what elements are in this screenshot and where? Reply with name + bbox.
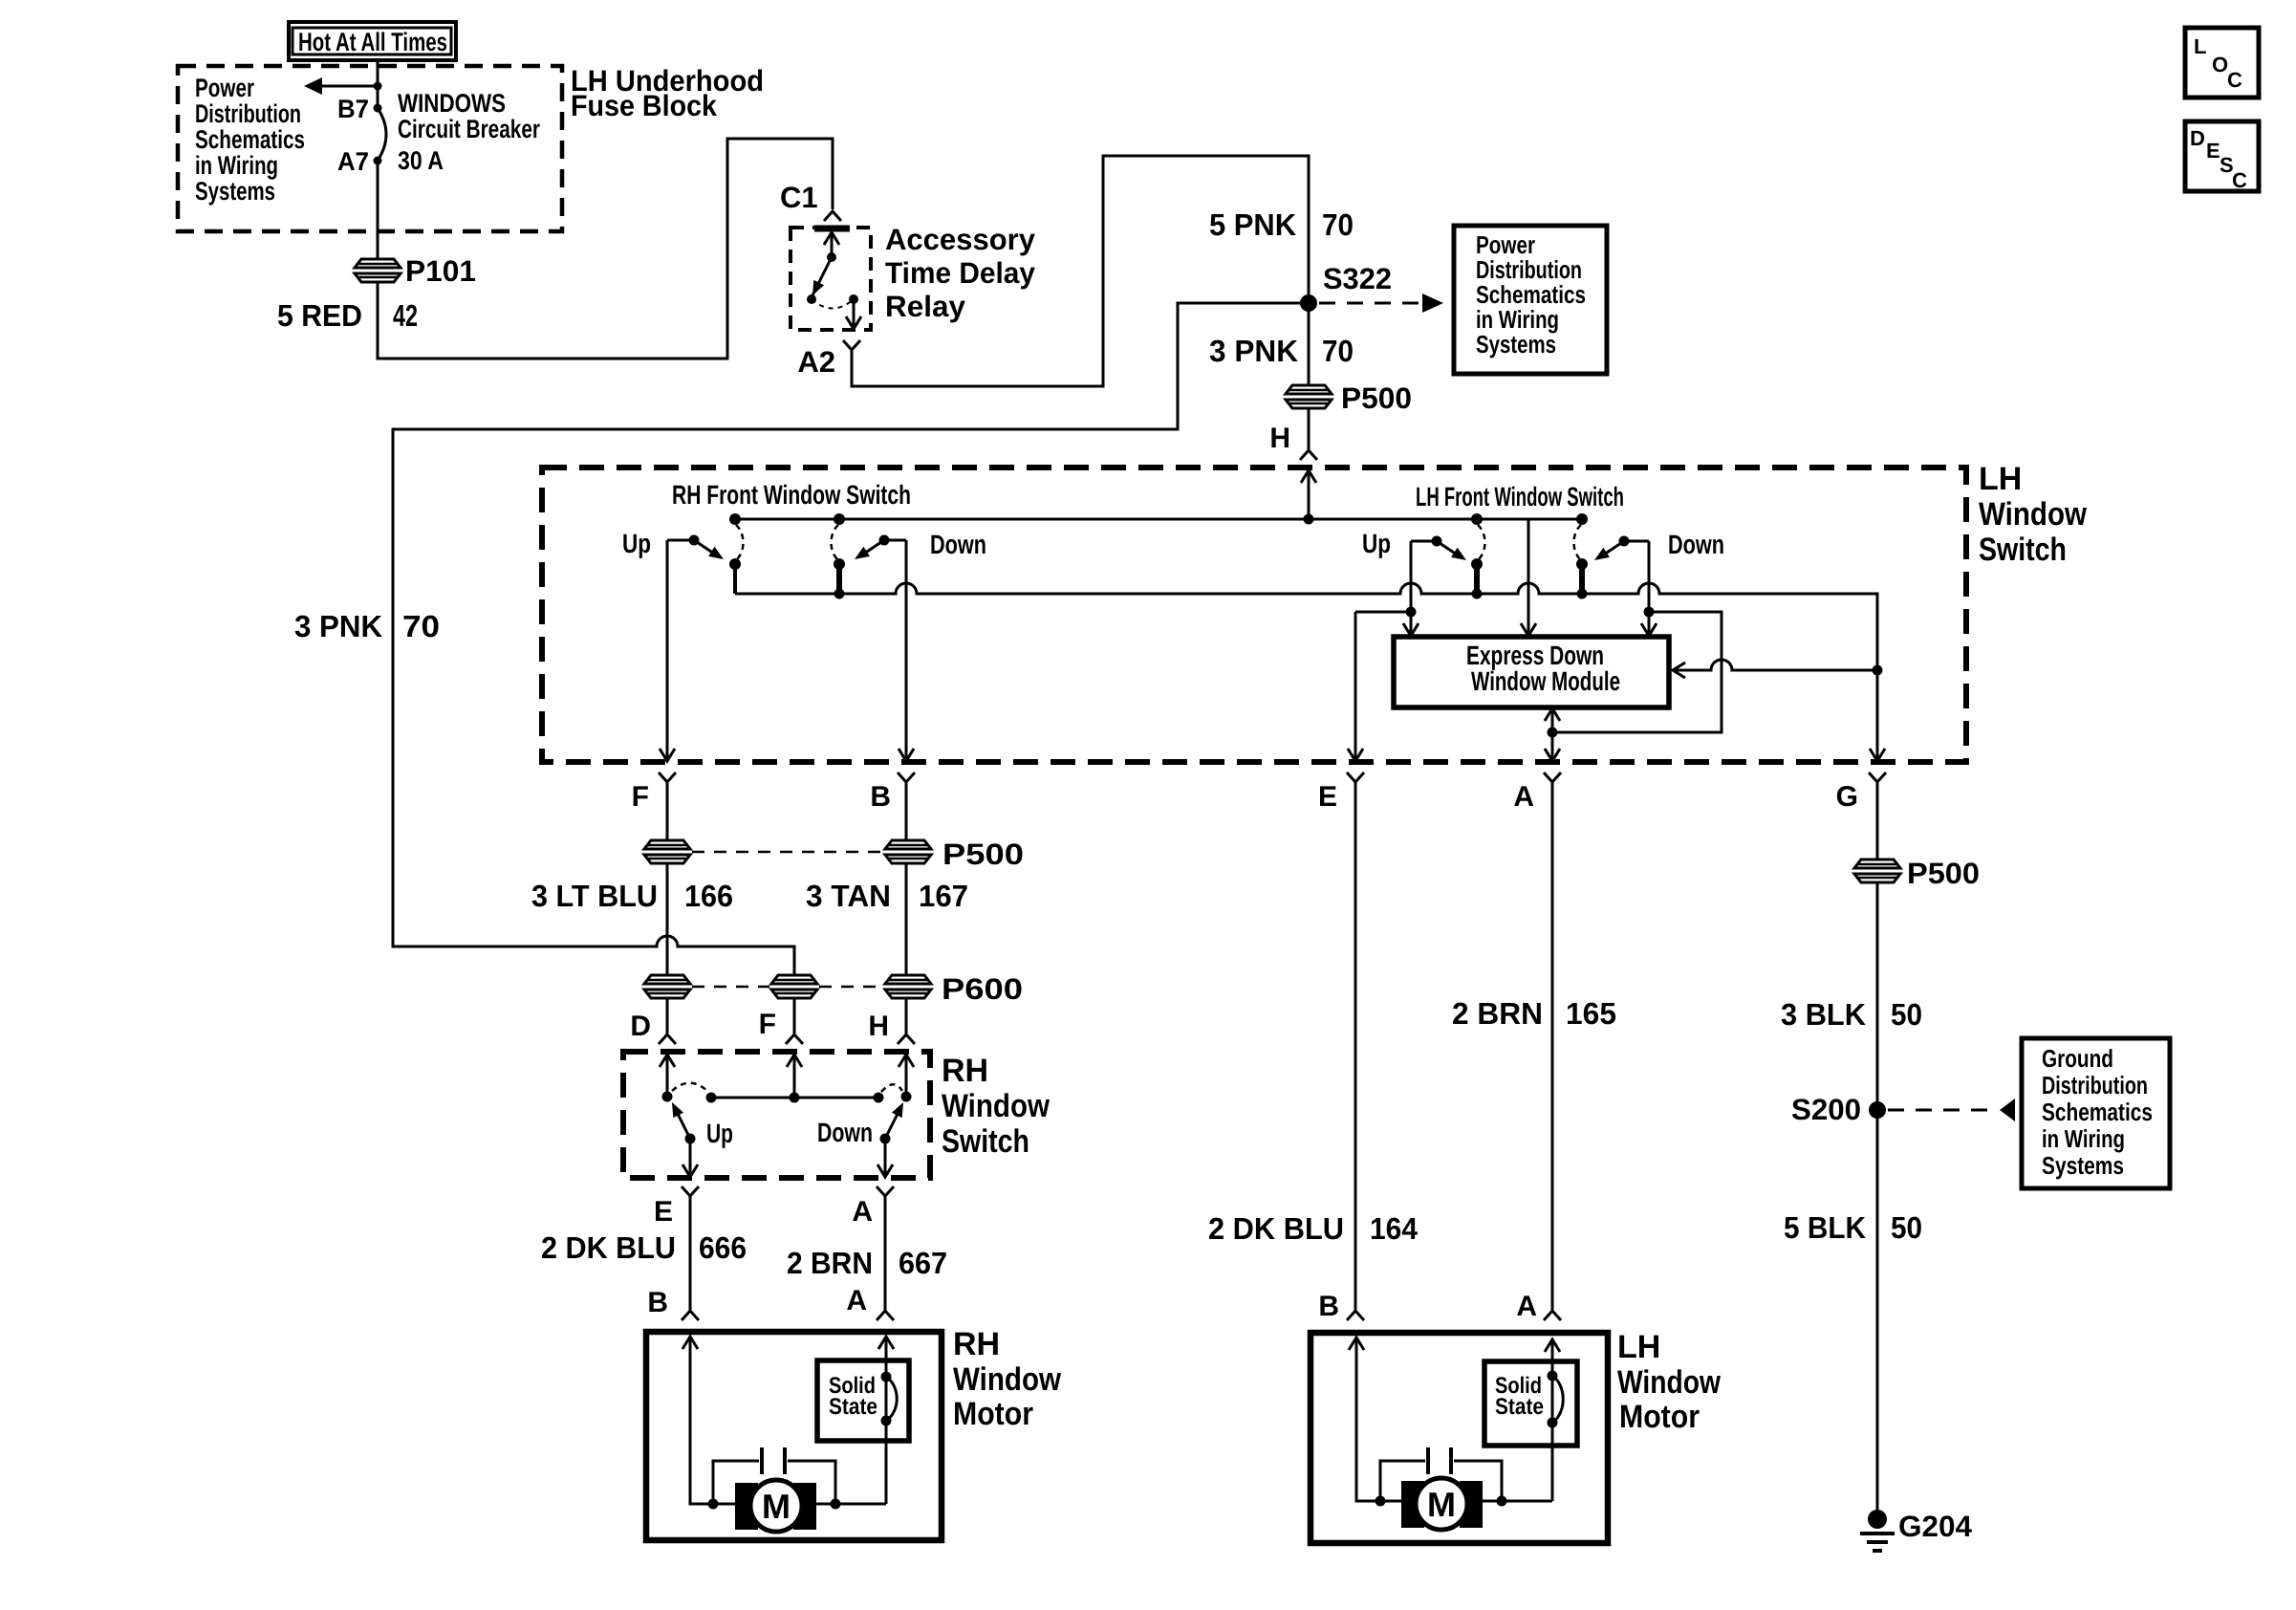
svg-text:Motor: Motor xyxy=(953,1396,1033,1432)
svg-text:Hot At All Times: Hot At All Times xyxy=(298,28,447,56)
svg-text:70: 70 xyxy=(1322,334,1354,368)
svg-text:P500: P500 xyxy=(942,838,1024,871)
pin C1 xyxy=(824,211,841,221)
wire P600 to pin D xyxy=(666,998,669,1033)
wire module bottom feedback xyxy=(1551,710,1554,732)
pin B (LH motor) xyxy=(1347,1311,1364,1320)
wire F P500 to P600 xyxy=(666,863,669,975)
svg-text:Window: Window xyxy=(1979,496,2087,533)
wire E to RH motor xyxy=(689,1195,692,1310)
svg-text:Distribution: Distribution xyxy=(195,99,301,128)
connector P500 (H) xyxy=(1286,385,1332,408)
svg-text:G: G xyxy=(1836,781,1858,813)
svg-text:LH Front Window Switch: LH Front Window Switch xyxy=(1416,482,1624,511)
wire G to P500 xyxy=(1876,782,1879,859)
svg-text:Accessory: Accessory xyxy=(885,223,1036,256)
svg-text:3 TAN: 3 TAN xyxy=(806,879,891,913)
wire A output xyxy=(1551,732,1554,760)
box Express Down Window Module xyxy=(1394,637,1669,707)
svg-text:LH: LH xyxy=(1617,1329,1660,1365)
svg-text:Up: Up xyxy=(706,1119,733,1148)
svg-text:Ground: Ground xyxy=(2042,1044,2113,1073)
wire P600 to pin H xyxy=(905,998,908,1033)
capacitor (LH motor) xyxy=(1380,1461,1425,1501)
wire B to P500 xyxy=(905,782,908,840)
svg-text:G204: G204 xyxy=(1898,1510,1973,1543)
pin F xyxy=(659,772,676,782)
box Power Distribution Schematics in Wiring Systems xyxy=(1454,226,1607,374)
svg-text:50: 50 xyxy=(1891,1210,1922,1245)
box DESC xyxy=(2185,121,2259,192)
svg-text:70: 70 xyxy=(1322,207,1354,242)
svg-text:Time Delay: Time Delay xyxy=(885,256,1036,290)
svg-text:3 PNK: 3 PNK xyxy=(294,609,382,643)
wire switch feed bus xyxy=(735,518,1582,521)
svg-text:5 RED: 5 RED xyxy=(277,298,362,333)
node arrow junction xyxy=(374,82,382,91)
svg-text:L: L xyxy=(2194,34,2206,58)
svg-text:164: 164 xyxy=(1370,1211,1418,1246)
wire RH up output to F xyxy=(666,540,669,760)
svg-text:A: A xyxy=(852,1196,873,1228)
motor RH internals xyxy=(682,1337,909,1532)
svg-text:Window: Window xyxy=(1617,1364,1721,1401)
svg-text:M: M xyxy=(1427,1485,1456,1524)
pin G xyxy=(1869,772,1886,782)
arrow S200 to ground distribution xyxy=(1888,1109,1998,1112)
svg-text:State: State xyxy=(1495,1394,1544,1420)
svg-text:H: H xyxy=(868,1011,889,1042)
connector P500 (F) xyxy=(644,840,690,863)
svg-text:Switch: Switch xyxy=(942,1123,1029,1160)
svg-text:Window: Window xyxy=(942,1088,1050,1124)
switch RH front Up contact xyxy=(667,513,744,594)
arrow S322 to power distribution xyxy=(1319,302,1421,305)
svg-text:P500: P500 xyxy=(1341,381,1412,415)
pin H (RH switch) xyxy=(898,1034,915,1044)
capacitor (RH motor) xyxy=(713,1461,759,1504)
svg-text:A: A xyxy=(1513,781,1534,813)
svg-text:166: 166 xyxy=(684,879,733,913)
svg-text:O: O xyxy=(2212,53,2228,76)
node S200 xyxy=(1869,1101,1886,1119)
svg-text:E: E xyxy=(2206,139,2220,163)
svg-text:C: C xyxy=(2227,68,2242,92)
relay Accessory Time Delay Relay xyxy=(791,228,871,330)
svg-text:P500: P500 xyxy=(1907,857,1980,890)
pin E (RH switch) xyxy=(682,1186,699,1196)
svg-text:Relay: Relay xyxy=(885,290,966,323)
wire A(LH) to LH motor xyxy=(1551,782,1554,1310)
svg-text:M: M xyxy=(762,1487,791,1526)
pin B xyxy=(898,772,915,782)
wire A2 to S322 xyxy=(852,156,1309,386)
box RH Window Motor xyxy=(646,1332,942,1540)
wire P101 to relay pin C1 xyxy=(378,139,833,359)
svg-text:Systems: Systems xyxy=(1476,330,1556,359)
dashed box LH Underhood Fuse Block xyxy=(178,66,562,231)
wire P500 to pin H xyxy=(1308,408,1310,449)
svg-text:3 BLK: 3 BLK xyxy=(1781,997,1866,1032)
svg-text:Systems: Systems xyxy=(2042,1151,2124,1180)
svg-text:C: C xyxy=(2232,168,2247,192)
pin F (RH switch) xyxy=(786,1034,803,1044)
wire A7 to P101 xyxy=(377,161,379,259)
pin H xyxy=(1300,450,1317,460)
svg-text:Schematics: Schematics xyxy=(2042,1098,2153,1126)
pin A (RH motor) xyxy=(877,1311,894,1320)
wire LH up branch to E and module xyxy=(1410,541,1413,612)
wire P600 to pin F xyxy=(793,998,796,1033)
svg-text:42: 42 xyxy=(393,298,418,333)
svg-text:70: 70 xyxy=(402,609,440,643)
svg-text:E: E xyxy=(1318,781,1337,813)
motor LH internals xyxy=(1349,1338,1577,1530)
pin A2 xyxy=(843,340,860,350)
svg-text:F: F xyxy=(632,781,649,813)
svg-text:Down: Down xyxy=(930,530,986,559)
pin A (LH motor) xyxy=(1544,1311,1561,1320)
svg-text:LH: LH xyxy=(1979,461,2022,497)
svg-text:5 PNK: 5 PNK xyxy=(1209,207,1296,242)
connector P500 (G) xyxy=(1854,859,1900,882)
svg-text:5 BLK: 5 BLK xyxy=(1784,1210,1866,1245)
svg-text:A: A xyxy=(1516,1291,1537,1322)
svg-text:F: F xyxy=(759,1009,776,1040)
svg-text:A7: A7 xyxy=(337,147,369,176)
svg-text:A: A xyxy=(846,1285,867,1316)
node S322 xyxy=(1300,294,1317,312)
switch LH front Up contact xyxy=(1411,513,1485,599)
connector P101 xyxy=(355,259,401,282)
svg-text:B: B xyxy=(870,781,891,813)
switch RH window internals xyxy=(660,1054,914,1177)
node A7 xyxy=(374,157,382,165)
wire A to RH motor xyxy=(884,1195,887,1310)
svg-text:WINDOWS: WINDOWS xyxy=(398,89,506,118)
svg-text:B7: B7 xyxy=(337,95,369,123)
wire module right-side input xyxy=(1675,660,1877,670)
switch LH front Down contact xyxy=(1574,513,1650,599)
pin D xyxy=(659,1034,676,1044)
motor M (RH) xyxy=(735,1483,758,1530)
svg-text:in Wiring: in Wiring xyxy=(2042,1124,2125,1153)
wire S322 to P500 xyxy=(1308,303,1310,385)
svg-text:Window Module: Window Module xyxy=(1471,666,1620,696)
svg-text:Motor: Motor xyxy=(1619,1399,1700,1435)
svg-text:D: D xyxy=(630,1011,651,1042)
connector P500 (B) xyxy=(885,840,931,863)
svg-text:in Wiring: in Wiring xyxy=(195,151,278,180)
svg-text:S200: S200 xyxy=(1791,1093,1861,1126)
svg-text:P101: P101 xyxy=(405,254,476,288)
pin B (RH motor) xyxy=(682,1311,699,1320)
svg-text:State: State xyxy=(829,1394,877,1420)
svg-text:S322: S322 xyxy=(1323,262,1392,295)
svg-text:RH Front Window Switch: RH Front Window Switch xyxy=(672,480,911,510)
svg-text:E: E xyxy=(654,1196,673,1228)
svg-text:165: 165 xyxy=(1566,996,1616,1031)
box Ground Distribution Schematics in Wiring Systems xyxy=(2022,1038,2170,1188)
box LOC xyxy=(2185,28,2259,98)
motor M (LH) xyxy=(1401,1481,1424,1528)
box LH Window Motor xyxy=(1310,1333,1608,1543)
ground G204 xyxy=(1860,1510,1895,1551)
box Hot At All Times xyxy=(289,22,456,60)
svg-text:Fuse Block: Fuse Block xyxy=(571,89,718,122)
pin E xyxy=(1347,772,1364,782)
switch RH front Down contact xyxy=(832,513,907,599)
wire LH down branch to module and A xyxy=(1648,541,1651,612)
svg-text:667: 667 xyxy=(899,1246,947,1280)
svg-text:H: H xyxy=(1269,423,1290,454)
wire B P500 to P600 xyxy=(905,863,908,975)
svg-text:Up: Up xyxy=(622,529,651,558)
svg-text:Switch: Switch xyxy=(1979,532,2067,568)
svg-text:B: B xyxy=(1318,1291,1339,1322)
svg-text:Systems: Systems xyxy=(195,177,275,206)
node B7 xyxy=(374,104,382,113)
wire battery feed into fuse block xyxy=(377,60,379,108)
wire common rail to G xyxy=(735,583,1877,760)
svg-text:2 BRN: 2 BRN xyxy=(1452,996,1543,1031)
svg-text:RH: RH xyxy=(953,1326,1000,1362)
svg-text:Window: Window xyxy=(953,1361,1061,1398)
svg-text:167: 167 xyxy=(919,879,968,913)
svg-text:A2: A2 xyxy=(797,345,835,379)
svg-text:2 DK BLU: 2 DK BLU xyxy=(1208,1211,1344,1246)
svg-text:P600: P600 xyxy=(942,972,1023,1006)
dashed box LH Window Switch xyxy=(542,468,1966,762)
svg-text:666: 666 xyxy=(699,1230,747,1265)
wire bus feed to module xyxy=(1527,519,1530,634)
arrow to power distribution schematics xyxy=(319,85,379,88)
svg-text:RH: RH xyxy=(942,1053,988,1089)
dashed links P600 xyxy=(692,986,769,989)
pin A (RH switch) xyxy=(877,1186,894,1196)
wire E(LH) to LH motor xyxy=(1354,782,1357,1310)
svg-text:2 DK BLU: 2 DK BLU xyxy=(541,1230,676,1265)
svg-text:Power: Power xyxy=(195,74,254,102)
text power distribution schematics (fuse block) xyxy=(195,74,305,206)
svg-text:50: 50 xyxy=(1891,997,1922,1032)
connector P600 (F) xyxy=(771,975,817,998)
svg-text:Distribution: Distribution xyxy=(2042,1071,2148,1099)
svg-text:D: D xyxy=(2190,126,2205,150)
wire S200 to G204 xyxy=(1876,1110,1879,1512)
svg-text:C1: C1 xyxy=(780,181,818,214)
pin A xyxy=(1544,772,1561,782)
svg-text:3 PNK: 3 PNK xyxy=(1209,334,1298,368)
solid state switch (RH motor) xyxy=(885,1337,888,1504)
dashed link P500 pair xyxy=(692,851,883,854)
dashed box RH Window Switch xyxy=(623,1052,930,1178)
circuit breaker WINDOWS 30 A xyxy=(378,108,386,161)
connector P600 (D) xyxy=(644,975,690,998)
wire RH down output to B xyxy=(905,540,908,760)
svg-text:Circuit Breaker: Circuit Breaker xyxy=(398,115,540,143)
node G branch xyxy=(1873,665,1883,676)
svg-text:Up: Up xyxy=(1362,529,1391,558)
wire 3 PNK branch S322 to RH switch pin F xyxy=(393,303,1309,975)
svg-text:Down: Down xyxy=(1668,530,1724,559)
svg-text:2 BRN: 2 BRN xyxy=(787,1246,873,1280)
wire P500 to S200 xyxy=(1876,882,1879,1110)
svg-text:Schematics: Schematics xyxy=(195,125,305,154)
svg-text:3 LT BLU: 3 LT BLU xyxy=(531,879,658,913)
svg-text:B: B xyxy=(647,1287,668,1318)
solid state switch (LH motor) xyxy=(1551,1339,1554,1501)
wire H feed to switch bus xyxy=(1308,470,1310,519)
wire F to P500 xyxy=(666,782,669,840)
svg-text:30 A: 30 A xyxy=(398,146,444,175)
connector P600 (H) xyxy=(885,975,931,998)
svg-text:Down: Down xyxy=(817,1118,873,1147)
node bus H xyxy=(1304,514,1314,525)
